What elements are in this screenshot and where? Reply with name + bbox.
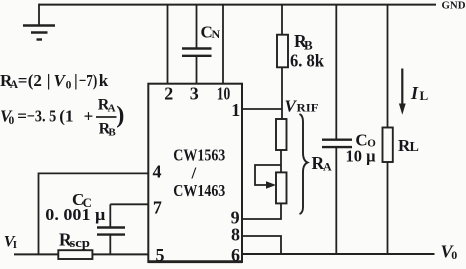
capacitor CC [97, 204, 125, 254]
svg-text:8: 8 [231, 225, 240, 245]
svg-text:0: 0 [66, 80, 72, 92]
wire pin8 to output rail [242, 236, 281, 254]
label RA [312, 153, 333, 174]
svg-text:−3. 5: −3. 5 [27, 107, 56, 126]
label RB 6.8k [290, 31, 324, 71]
svg-text:0: 0 [9, 115, 15, 127]
svg-text:0. 001 μ: 0. 001 μ [45, 205, 105, 224]
wire fraction bar [96, 116, 117, 118]
svg-text:=: = [17, 107, 27, 126]
wire between resistor and pot [280, 150, 282, 172]
svg-text:A: A [323, 160, 332, 174]
svg-text:N: N [212, 27, 221, 41]
wire pin10 drop [222, 5, 224, 84]
wire RL top [387, 5, 389, 128]
svg-text:(1: (1 [59, 107, 73, 126]
label CO 10u [346, 131, 377, 166]
wire pin4 loop [39, 173, 149, 254]
node VI [4, 234, 17, 252]
svg-text:1: 1 [231, 100, 240, 120]
resistor upper of RA chain [276, 119, 287, 150]
svg-text:GND: GND [442, 0, 466, 12]
svg-text:4: 4 [153, 161, 162, 181]
capacitor CO [322, 140, 352, 254]
wire pin2 drop [167, 5, 169, 84]
svg-text:−7): −7) [79, 71, 98, 90]
label formula VO [0, 97, 124, 139]
capacitor CN [182, 5, 212, 84]
label IL [410, 83, 429, 103]
svg-text:+: + [84, 107, 94, 126]
svg-text:L: L [410, 140, 419, 155]
svg-text:=: = [18, 71, 28, 90]
svg-text:|: | [74, 71, 78, 90]
svg-text:L: L [420, 88, 429, 103]
node VRIF [285, 97, 319, 116]
wire pot bottom to pin9 [242, 203, 282, 219]
op-amp U1 CW1563/CW1463 [148, 84, 242, 262]
ground [23, 4, 55, 40]
wire RL bottom [387, 162, 389, 254]
svg-text:10: 10 [217, 84, 231, 104]
svg-text:RIF: RIF [297, 101, 319, 115]
svg-text:6: 6 [231, 245, 240, 265]
svg-text:I: I [410, 83, 419, 103]
svg-text:3: 3 [190, 84, 199, 104]
svg-text:0: 0 [451, 248, 457, 262]
svg-text:A: A [108, 102, 116, 114]
current arrow IL [399, 69, 406, 115]
svg-text:k: k [99, 71, 109, 90]
resistor Rscp [58, 250, 92, 259]
svg-text:10 μ: 10 μ [346, 147, 376, 166]
svg-text:|: | [47, 71, 51, 90]
wire output rail VO [242, 253, 435, 255]
svg-text:7: 7 [153, 198, 162, 218]
svg-text:B: B [108, 126, 116, 138]
wire input rail VI [14, 253, 148, 255]
svg-text:CW1463: CW1463 [173, 181, 225, 200]
label RL [398, 136, 419, 155]
label CW1563/CW1463 [173, 146, 225, 201]
resistor RB [277, 35, 288, 68]
node VO [441, 242, 458, 263]
wire RB top [281, 5, 283, 35]
label formula RA [0, 71, 109, 92]
wire CO top [335, 5, 337, 140]
svg-text:/: / [191, 164, 197, 183]
wire pin7 [110, 203, 148, 205]
wire pin1 to node VRIF [242, 108, 282, 110]
svg-text:6. 8k: 6. 8k [290, 51, 324, 71]
svg-text:): ) [116, 102, 124, 129]
svg-text:I: I [13, 239, 17, 251]
svg-text:2: 2 [164, 84, 173, 104]
potentiometer lower of RA chain [255, 165, 287, 203]
resistor RL [383, 128, 393, 163]
wire RB bottom to chain [281, 67, 283, 119]
label CC 0.001u [45, 190, 105, 224]
svg-text:5: 5 [156, 245, 165, 265]
wire top GND rail [39, 4, 436, 6]
svg-text:scp: scp [70, 235, 91, 250]
label CN [201, 23, 221, 42]
label Rscp [59, 230, 90, 251]
brace RA [300, 114, 308, 214]
svg-text:CW1563: CW1563 [173, 146, 225, 165]
svg-text:V: V [54, 71, 67, 90]
svg-text:(2: (2 [28, 71, 42, 90]
